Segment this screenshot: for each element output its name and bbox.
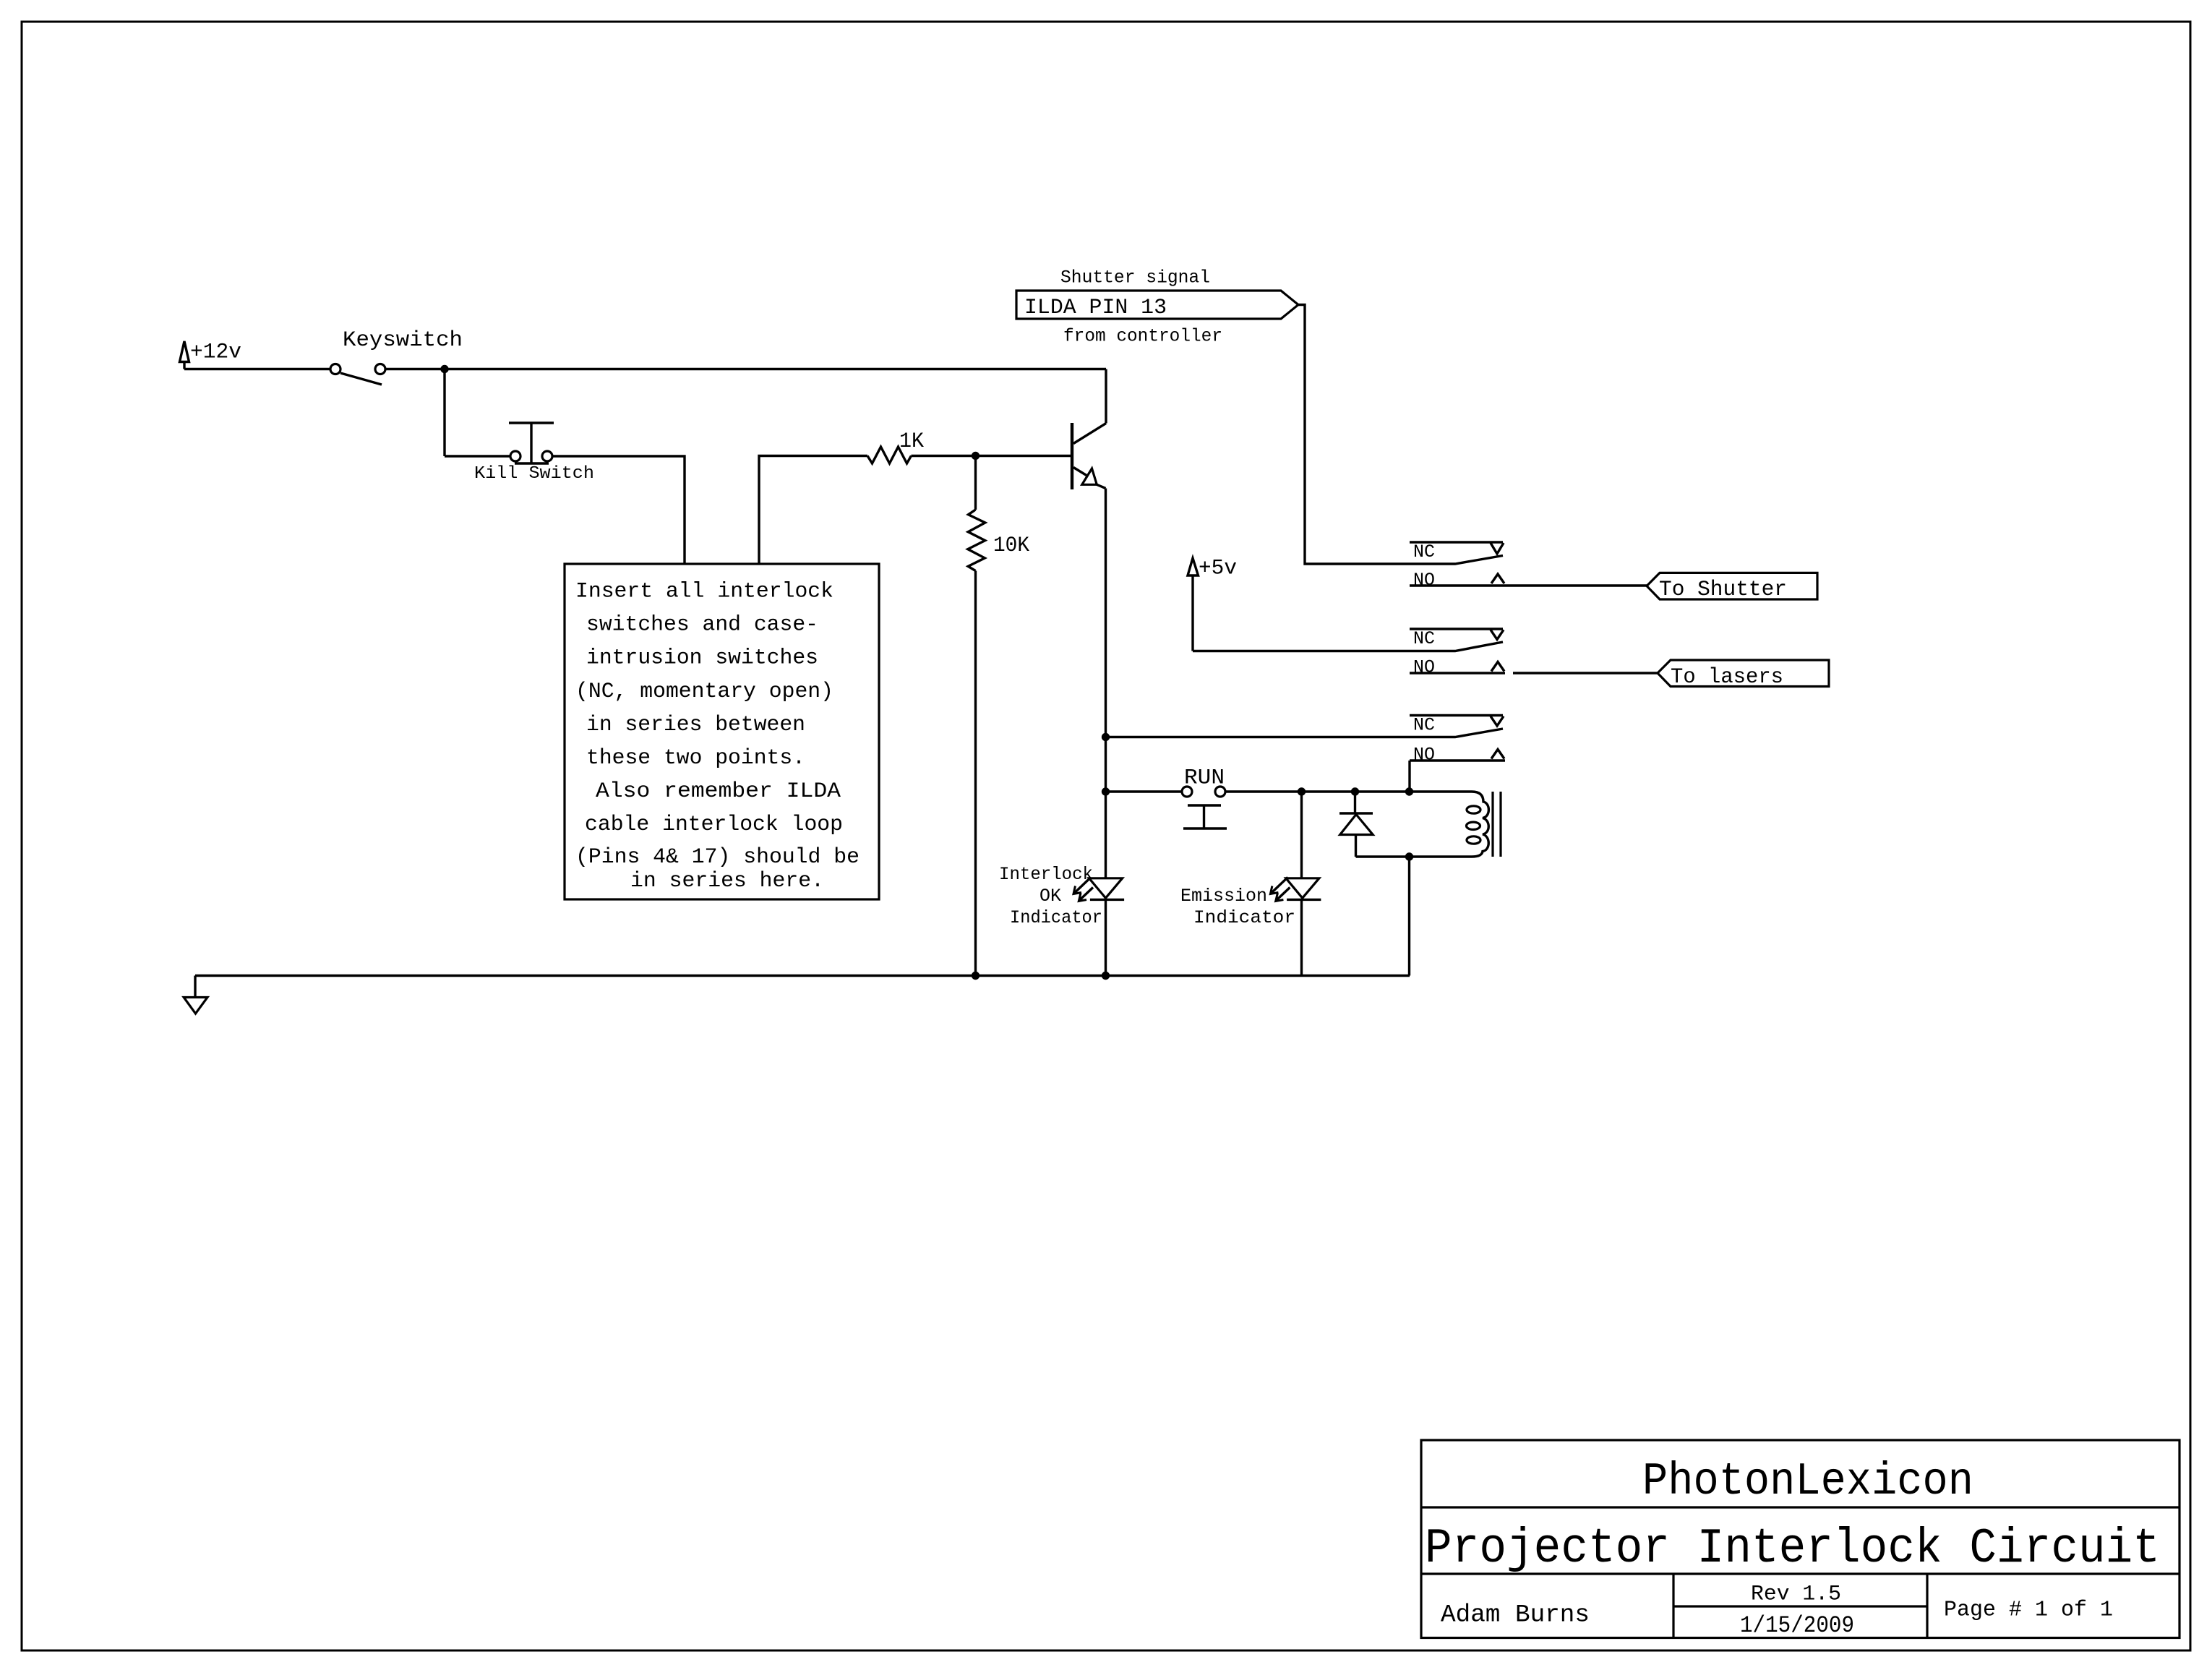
wire junction A down [443, 369, 445, 457]
node flag To Shutter [1647, 573, 1817, 599]
svg-text:switches and case-: switches and case- [586, 612, 818, 637]
LED D3 Emission [1270, 878, 1321, 902]
note box [565, 564, 879, 899]
node flag To lasers [1658, 660, 1829, 687]
power symbol +5v [1188, 558, 1199, 651]
wire RUN to coil [1225, 790, 1409, 792]
label Interlock OK Indicator [999, 864, 1102, 928]
wire coil bottom to rail [1408, 857, 1410, 976]
switch Keyswitch S1 [330, 364, 385, 385]
wire emitter to RUN switch [1106, 790, 1183, 792]
svg-text:Indicator: Indicator [1010, 907, 1102, 928]
LED D2 Interlock OK [1073, 878, 1124, 902]
relay contact K1b (lasers) [1410, 629, 1505, 673]
svg-text:NC: NC [1413, 715, 1435, 736]
svg-text:Shutter signal: Shutter signal [1060, 267, 1210, 288]
svg-text:1K: 1K [899, 429, 924, 454]
title block [1421, 1440, 2179, 1638]
svg-text:To lasers: To lasers [1671, 665, 1783, 690]
power symbol +12v [180, 341, 189, 369]
wire right note stub to 1K [759, 456, 867, 565]
svg-text:Adam Burns: Adam Burns [1441, 1602, 1590, 1630]
svg-text:+12v: +12v [190, 341, 241, 365]
wire emission branch down [1300, 792, 1303, 878]
svg-text:NO: NO [1413, 745, 1435, 766]
resistor R1 1K [867, 447, 912, 463]
wire +12v to keyswitch [184, 368, 330, 370]
svg-text:OK: OK [1039, 886, 1061, 907]
ground [184, 976, 207, 1014]
transistor Q1 NPN [1072, 369, 1106, 879]
wire keyswitch to collector corner [385, 368, 1106, 370]
svg-text:in series between: in series between [586, 712, 805, 737]
node flag ILDA PIN 13 [1016, 291, 1298, 319]
svg-text:Keyswitch: Keyswitch [343, 328, 463, 353]
relay contact K1a (shutter) [1410, 542, 1647, 586]
svg-text:intrusion switches: intrusion switches [586, 646, 818, 670]
wire to lasers flag [1513, 672, 1658, 674]
svg-text:Kill Switch: Kill Switch [474, 464, 594, 484]
node junction emission branch [1298, 787, 1306, 795]
svg-text:Page # 1 of 1: Page # 1 of 1 [1944, 1598, 2113, 1623]
svg-text:To Shutter: To Shutter [1659, 578, 1787, 602]
svg-text:(Pins 4& 17) should be: (Pins 4& 17) should be [575, 844, 859, 869]
wire emitter to contact 3 pivot [1106, 729, 1504, 737]
wire ground rail [195, 975, 1410, 977]
switch Kill Switch S2 [509, 423, 554, 463]
svg-text:ILDA PIN 13: ILDA PIN 13 [1024, 296, 1167, 320]
wire NO3 down to coil top [1408, 761, 1410, 792]
svg-text:Rev 1.5: Rev 1.5 [1751, 1582, 1841, 1606]
wire +5v to contact 2 pivot [1193, 642, 1503, 651]
svg-text:cable interlock loop: cable interlock loop [585, 812, 843, 836]
wire LED2 to rail [1105, 899, 1107, 975]
node base junction [972, 452, 979, 460]
svg-text:Emission: Emission [1180, 886, 1267, 907]
svg-text:Projector Interlock Circuit: Projector Interlock Circuit [1425, 1521, 2160, 1577]
svg-text:Interlock: Interlock [999, 864, 1093, 885]
svg-text:in series here.: in series here. [630, 868, 824, 893]
svg-text:NC: NC [1413, 628, 1435, 649]
wire coil bottom [1356, 855, 1472, 857]
relay contact K1c (latch) [1410, 716, 1505, 761]
wire to kill switch [445, 455, 510, 457]
label Emission Indicator [1180, 886, 1295, 928]
resistor R2 10K [968, 456, 985, 976]
node junction emitter-RUN [1102, 787, 1110, 795]
svg-text:PhotonLexicon: PhotonLexicon [1642, 1456, 1973, 1507]
svg-text:+5v: +5v [1199, 557, 1237, 581]
svg-text:Indicator: Indicator [1193, 907, 1295, 928]
wire kill switch to left note stub [552, 456, 685, 564]
diode D1 flyback [1339, 792, 1373, 857]
svg-text:Also remember ILDA: Also remember ILDA [596, 779, 841, 803]
svg-text:10K: 10K [993, 534, 1029, 558]
svg-text:(NC, momentary open): (NC, momentary open) [575, 679, 833, 703]
node junction emitter-pivot [1102, 733, 1110, 741]
svg-text:NC: NC [1413, 541, 1435, 562]
wire LED3 to rail [1300, 899, 1303, 975]
svg-text:NO: NO [1413, 657, 1435, 678]
node junction coil top [1405, 787, 1413, 795]
svg-text:NO: NO [1413, 570, 1435, 591]
wire ILDA PIN 13 to contact 1 pivot [1298, 305, 1503, 565]
svg-text:1/15/2009: 1/15/2009 [1740, 1612, 1854, 1639]
svg-text:Insert all interlock: Insert all interlock [575, 579, 833, 604]
note text [575, 579, 859, 893]
node junction 10K-rail [972, 972, 979, 980]
wire 1K to base [912, 455, 1073, 457]
svg-text:from controller: from controller [1063, 326, 1222, 347]
node junction LED2-rail [1102, 972, 1110, 980]
switch RUN S3 [1182, 787, 1227, 828]
svg-text:these two points.: these two points. [586, 745, 805, 770]
node junction A [440, 365, 448, 373]
node junction diode top [1351, 787, 1359, 795]
relay coil K1 [1410, 792, 1501, 857]
node junction coil bottom [1405, 852, 1413, 860]
